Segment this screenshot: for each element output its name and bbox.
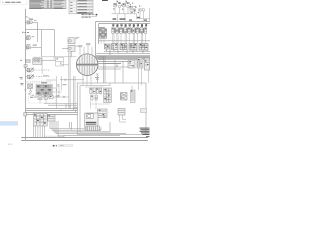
pilot pump group [33, 57, 56, 64]
right striped element [131, 90, 136, 103]
spec table B [69, 0, 93, 14]
blue page dots [8, 144, 10, 145]
striped component bottom [86, 126, 100, 131]
oil cooler cluster upper [68, 37, 79, 44]
pump P2 [26, 35, 34, 39]
hatch pipes below travel block [34, 126, 45, 137]
pump P3 [26, 45, 41, 49]
viewer button top-left [1, 0, 28, 5]
travel valve block [33, 114, 47, 127]
label above P1 [26, 17, 30, 19]
top-right wires [112, 7, 151, 21]
pilot block lower [98, 109, 108, 118]
stamp label rows [82, 14, 98, 18]
top-right pilot valve B [123, 0, 130, 7]
sheet bottom border wires [21, 138, 148, 141]
tick marks on left wire [24, 68, 30, 90]
sheet left border wire [25, 9, 27, 141]
swing motor valves A [90, 88, 102, 100]
wire x41 down [41, 30, 43, 58]
small block right of travel [48, 115, 55, 122]
engine box outline [42, 57, 76, 74]
solenoid square grid [99, 29, 107, 39]
bank labels [113, 17, 148, 21]
swing motor block [85, 113, 98, 128]
manifold text label [41, 82, 47, 83]
small valve right of motor [118, 109, 126, 123]
pipes from circle bottom [83, 75, 91, 86]
bus wires top right [96, 22, 151, 58]
pipes above circle [79, 43, 103, 59]
title block text [140, 128, 150, 137]
check valve X [121, 93, 128, 101]
right inner pipes [132, 68, 148, 113]
variable pump lower [25, 75, 50, 80]
staircase wires below travel block [50, 121, 126, 135]
swivel joint circle [76, 54, 98, 76]
X arrow near staircase [57, 96, 65, 98]
blue highlight bar [0, 121, 18, 125]
right valve cluster mid [96, 56, 149, 83]
variable pump upper [25, 68, 50, 73]
wire x54 down [54, 30, 56, 58]
dashed pilot wires [25, 81, 52, 83]
zoom control [53, 145, 73, 147]
oil cooler cluster lower [62, 45, 79, 51]
port labels under P1 [22, 32, 29, 33]
enclosure inner wires [85, 87, 110, 109]
lower-left valve group in dashed box [29, 95, 56, 104]
gray pipe band left of circle [60, 52, 75, 108]
left margin labels [20, 77, 24, 85]
top-right accumulator cluster [129, 6, 144, 11]
relief valve X [28, 84, 35, 96]
swing motor valves B [104, 88, 111, 103]
mid valve symbol row [105, 44, 149, 51]
small component on left wire y112 [24, 113, 27, 117]
pipe down from cooler [70, 51, 72, 57]
lower enclosure boxes [78, 83, 147, 135]
top-right pilot valve A [114, 0, 121, 7]
pilot symbols on left wire [20, 59, 31, 67]
right pipe bundle [96, 41, 150, 64]
top cluster flecks [113, 1, 140, 13]
spool unit row [112, 28, 147, 34]
parts table A [29, 0, 66, 9]
solenoid unit row [112, 24, 147, 27]
label above enclosure [95, 77, 99, 79]
sheet edge ticks [45, 136, 57, 137]
bus wires lower [26, 109, 78, 115]
wire x37.4 below bus [37, 30, 39, 43]
solenoid manifold block [36, 84, 53, 97]
mid wires near manifold [46, 76, 69, 108]
bus wire y29 [26, 29, 55, 31]
top dark bar [102, 0, 108, 1]
wires from spool row down [101, 33, 146, 44]
staircase wires to enclosure [44, 104, 78, 113]
X mark below circle [60, 79, 84, 81]
wire from P1 down [37, 22, 39, 29]
pump P1 [25, 18, 37, 24]
